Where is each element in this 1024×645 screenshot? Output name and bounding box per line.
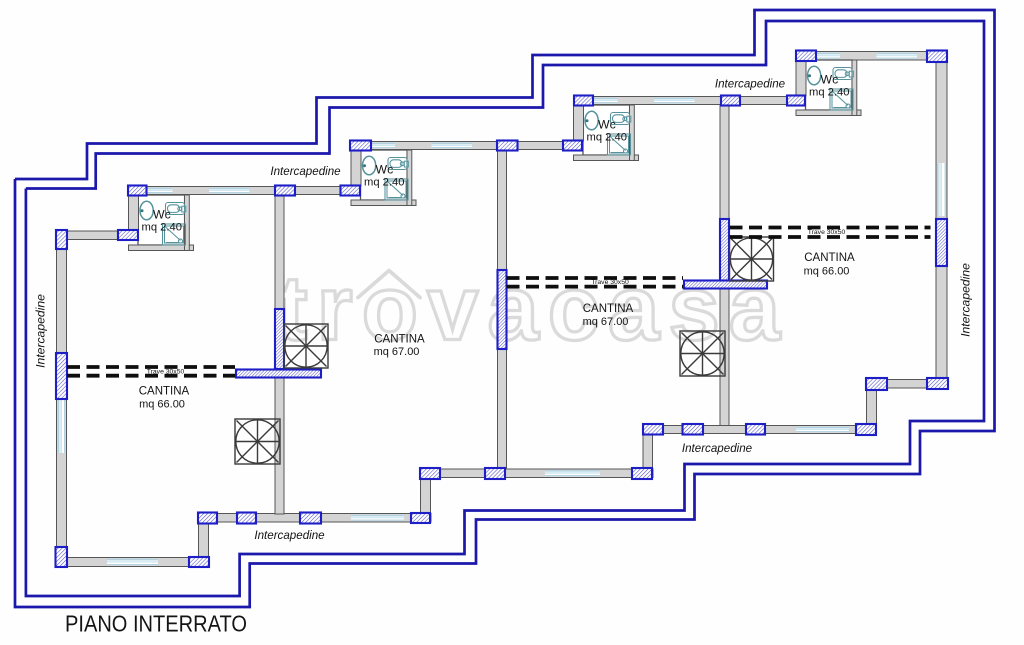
wall left stub unit1 <box>56 231 138 240</box>
party wall unit1-2 <box>275 195 284 514</box>
pier level4 c <box>746 424 765 435</box>
pier unit3-4 top T <box>721 96 740 106</box>
window level3 bottom wall <box>545 470 600 476</box>
wc room unit2 interior box <box>361 150 408 200</box>
wall unit2 top <box>350 142 582 150</box>
pier bottom-right corner <box>927 378 948 389</box>
wc unit2 toilet <box>363 156 376 175</box>
svg-text:mq 2.40: mq 2.40 <box>809 87 849 99</box>
svg-text:Intercapedine: Intercapedine <box>34 294 48 368</box>
window unit1 bottom wall <box>107 559 158 566</box>
pier level2 a <box>198 513 217 524</box>
wall step1 <box>199 523 209 558</box>
pier unit2 wc <box>350 141 371 151</box>
wc unit1 right wall <box>185 195 190 251</box>
window unit2 top wall a <box>370 143 395 149</box>
wc unit3 bottom wall <box>574 155 639 161</box>
svg-text:mq 67.00: mq 67.00 <box>583 316 629 328</box>
beam dashes room1 <box>67 367 235 376</box>
watermark trovacasa <box>277 258 781 360</box>
wc unit1 left wall <box>129 195 139 231</box>
svg-text:mq 67.00: mq 67.00 <box>374 346 420 358</box>
wc room unit1 interior box <box>138 195 185 245</box>
svg-text:mq 2.40: mq 2.40 <box>364 177 404 189</box>
pier party wall 2-3 segment <box>498 270 507 349</box>
svg-text:Wc: Wc <box>376 163 394 177</box>
pier unit1-2 top T <box>275 186 295 196</box>
svg-text:CANTINA: CANTINA <box>139 386 190 398</box>
wall unit1 bottom <box>56 558 209 567</box>
pier below unit4 wc <box>787 96 805 106</box>
pier level4 a <box>643 424 663 435</box>
beam dashes room3 <box>507 278 684 287</box>
pier party wall 1-2 segment <box>275 309 284 369</box>
svg-text:Intercapedine: Intercapedine <box>715 78 786 91</box>
svg-text:Wc: Wc <box>153 208 171 222</box>
fan room1 lower <box>235 419 280 464</box>
pier top-right corner <box>927 51 947 63</box>
wall unit4 top <box>796 52 947 61</box>
wall left outer <box>57 230 67 567</box>
party wall unit3-4 <box>720 106 729 426</box>
wc unit4 toilet <box>808 66 821 85</box>
window unit3 top wall a <box>593 98 618 104</box>
fan room3 lower <box>680 331 725 376</box>
pier level2 b <box>237 513 256 524</box>
svg-text:mq 2.40: mq 2.40 <box>142 222 182 234</box>
wc unit1 shower <box>163 224 186 245</box>
pier right wall segment <box>936 219 947 266</box>
pier unit1 wc <box>128 186 147 196</box>
window level2 bottom wall <box>351 515 404 521</box>
pier below unit3 wc <box>563 141 582 151</box>
svg-text:trovacasa: trovacasa <box>277 258 781 360</box>
window unit1 top wall b <box>209 188 250 194</box>
pier bottom-left corner <box>56 547 68 567</box>
wc unit3 toilet <box>585 111 598 130</box>
pier level4 d <box>856 424 876 435</box>
pier below unit2 wc <box>341 186 361 196</box>
wc unit3 right wall <box>630 105 635 161</box>
svg-text:Wc: Wc <box>821 73 839 87</box>
pier left wall mid <box>56 353 67 399</box>
pier left stub <box>118 230 138 240</box>
fan room4 upper <box>730 237 774 281</box>
wc unit1 toilet <box>140 201 153 220</box>
wall level2 bottom <box>198 514 431 523</box>
wc unit4 washbasin <box>833 68 853 80</box>
wc unit3 washbasin <box>611 113 631 125</box>
wc unit2 shower <box>385 179 408 200</box>
wc room unit3 interior box <box>583 105 630 155</box>
pier level2 c <box>300 513 321 524</box>
svg-text:CANTINA: CANTINA <box>804 252 855 264</box>
wall unit3 top <box>574 97 805 105</box>
pier level3 c <box>632 468 652 479</box>
svg-text:CANTINA: CANTINA <box>374 334 425 346</box>
window unit4 top wall b <box>877 53 918 59</box>
wc unit2 right wall <box>407 150 412 206</box>
wc unit2 washbasin <box>388 158 408 170</box>
beam bar at party wall 1-2 <box>236 370 321 378</box>
window right wall <box>937 163 946 216</box>
beam bar at party wall 3-4 <box>684 281 767 289</box>
wc unit1 bottom wall <box>129 245 194 251</box>
wall right outer <box>936 62 947 379</box>
wall step4 <box>867 390 877 425</box>
window unit1 top wall a <box>148 188 173 194</box>
wc unit4 right wall <box>852 60 857 116</box>
svg-text:CANTINA: CANTINA <box>583 303 634 315</box>
wall level3 bottom <box>420 469 653 478</box>
wall level4 bottom <box>643 426 876 434</box>
wc unit4 left wall <box>796 60 806 96</box>
wall level5 bottom <box>866 380 948 389</box>
wc room unit4 interior box <box>806 60 853 110</box>
pier party wall 3-4 segment <box>720 219 729 281</box>
party wall unit2-3 <box>498 151 507 469</box>
svg-text:Trave 30x50: Trave 30x50 <box>147 369 185 376</box>
svg-text:Trave 30x50: Trave 30x50 <box>591 279 629 286</box>
wc unit1 washbasin <box>166 203 186 215</box>
window unit2 top wall b <box>432 143 473 149</box>
svg-text:mq 66.00: mq 66.00 <box>804 266 850 278</box>
wall step3 <box>643 434 653 469</box>
wall step2 <box>421 479 431 514</box>
wc unit3 left wall <box>574 105 584 141</box>
pier unit3 wc <box>574 96 593 106</box>
svg-text:Intercapedine: Intercapedine <box>959 263 973 337</box>
svg-text:Wc: Wc <box>598 118 616 132</box>
svg-text:Trave 30x50: Trave 30x50 <box>808 229 846 236</box>
window unit4 top wall a <box>815 53 840 59</box>
wc unit3 shower <box>608 134 631 155</box>
window unit3 top wall b <box>654 98 695 104</box>
svg-text:mq 66.00: mq 66.00 <box>139 399 185 411</box>
wc unit4 bottom wall <box>796 110 861 116</box>
svg-text:PIANO INTERRATO: PIANO INTERRATO <box>65 611 247 637</box>
svg-text:mq 2.40: mq 2.40 <box>587 132 627 144</box>
pier unit2-3 top T <box>497 141 518 151</box>
wc unit2 left wall <box>351 150 361 186</box>
pier unit1 bottom right <box>189 557 209 567</box>
beam dashes room4 <box>730 228 931 238</box>
svg-text:Intercapedine: Intercapedine <box>682 442 753 455</box>
pier left wall top <box>56 230 67 249</box>
svg-text:Intercapedine: Intercapedine <box>270 165 341 178</box>
wc unit4 shower <box>830 89 853 110</box>
svg-text:Intercapedine: Intercapedine <box>254 529 325 542</box>
pier level4 b <box>683 424 704 435</box>
pier level3 a <box>420 468 440 479</box>
fan room2 upper <box>284 324 328 368</box>
pier level3 b <box>485 468 505 479</box>
window left wall <box>58 399 66 453</box>
wc unit2 bottom wall <box>351 200 416 206</box>
pier unit4 wc <box>796 51 816 62</box>
wall unit1 top <box>128 187 360 195</box>
pier level5 a <box>866 378 887 390</box>
window level4 bottom wall <box>796 427 849 433</box>
pier level2 d <box>411 513 430 523</box>
